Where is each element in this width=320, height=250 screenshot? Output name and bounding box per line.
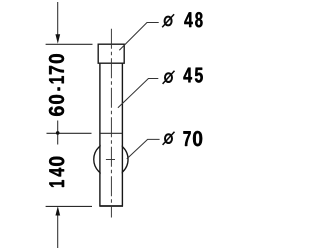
tube body right edge [121, 63, 123, 207]
label 45 [183, 68, 202, 83]
centerline (dash-dot) [110, 29, 112, 218]
O45 diameter glyph [163, 71, 175, 84]
extension line middle [47, 132, 92, 134]
dim junction dot [56, 131, 60, 135]
dim junction segment [57, 121, 59, 145]
label 140 (rotated) [49, 157, 64, 187]
cap rectangle O48 [98, 44, 124, 63]
leader O70 [127, 139, 160, 159]
label 70 [183, 131, 202, 146]
label 48 [184, 12, 202, 27]
label 60-170 (rotated) [49, 54, 64, 116]
O48 diameter glyph [162, 14, 174, 27]
white mask over tube interior [101, 140, 122, 179]
leader O45 [118, 79, 158, 108]
dim arrow bottom head [55, 206, 60, 215]
flange circle O70 [94, 142, 128, 176]
joint line across tube [100, 132, 122, 134]
O70 diameter glyph [163, 132, 175, 145]
circle center tick [106, 159, 115, 161]
tube bottom edge [99, 205, 123, 207]
tube body left edge [99, 63, 101, 207]
leader O48 [119, 23, 158, 51]
dim arrow bottom shaft [57, 215, 59, 249]
dim arrow top shaft [57, 2, 59, 35]
extension line top [46, 43, 93, 45]
dim arrow top head [55, 34, 60, 43]
extension line bottom [46, 205, 92, 207]
